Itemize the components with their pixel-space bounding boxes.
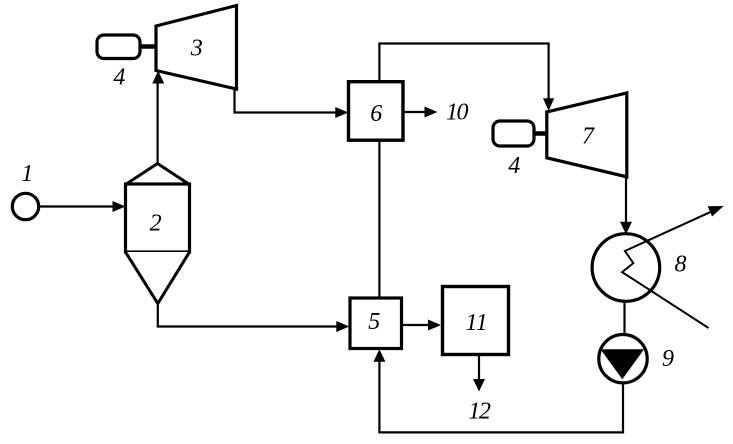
wire separator 2 to mixer 5 [158, 302, 349, 332]
wire separator 2 to compressor 3 [152, 71, 164, 163]
wire box 6 outlet to 10 [403, 107, 438, 118]
wire pump 9 return line to mixer 5 [373, 349, 623, 432]
wire box 6 to mixer 5 [378, 140, 380, 299]
motor 4 of turbine 7 [493, 121, 547, 146]
compressor 3 [156, 6, 237, 90]
motor 4 of compressor 3 [97, 35, 156, 59]
condenser 8 [592, 234, 660, 302]
svg-text:5: 5 [368, 309, 380, 335]
svg-text:9: 9 [662, 346, 674, 372]
svg-text:3: 3 [190, 35, 203, 61]
turbine 7 [547, 93, 627, 177]
svg-text:11: 11 [465, 310, 487, 336]
svg-text:4: 4 [508, 153, 520, 179]
wire box 6 to turbine 7 [379, 44, 554, 111]
svg-text:12: 12 [468, 399, 491, 425]
heat exchanger box 6 [349, 82, 404, 141]
cooling water line through condenser 8 [622, 206, 724, 328]
wire condenser 8 to pump 9 [623, 301, 625, 336]
svg-text:1: 1 [21, 161, 33, 187]
wire box 11 outlet to 12 [473, 355, 485, 392]
mixer box 5 [350, 298, 402, 349]
svg-text:8: 8 [675, 252, 687, 278]
separator 2 [126, 164, 190, 304]
svg-text:6: 6 [370, 101, 382, 127]
svg-text:2: 2 [150, 210, 162, 236]
svg-text:10: 10 [446, 100, 469, 126]
wire inlet 1 to separator 2 [39, 201, 126, 212]
pump 9 [599, 335, 647, 383]
wire turbine 7 to condenser 8 [620, 177, 632, 234]
box 11 [443, 287, 509, 355]
svg-text:7: 7 [582, 123, 595, 149]
wire mixer 5 to box 11 [402, 320, 442, 331]
node 1 (inlet) [12, 193, 38, 219]
svg-text:4: 4 [113, 64, 125, 90]
wire compressor 3 to box 6 [235, 88, 349, 118]
